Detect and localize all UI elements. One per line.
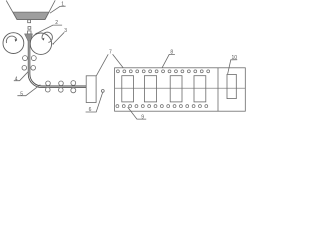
svg-text:3: 3 xyxy=(64,28,67,34)
label 2 leader xyxy=(36,25,62,33)
furnace partition xyxy=(217,68,219,111)
label 8 leader xyxy=(162,54,175,68)
label 4 leader xyxy=(14,71,29,80)
horizontal roller pair 1 bottom xyxy=(46,87,51,92)
svg-text:7: 7 xyxy=(109,49,112,55)
label 7 leader to box 6 xyxy=(96,54,108,75)
tundish 1 (molten metal pool, gray fill) xyxy=(13,12,49,20)
label 10 leader xyxy=(228,60,238,74)
label 7 leader to furnace roller xyxy=(113,54,126,71)
horizontal roller pair 2 bottom xyxy=(59,88,64,93)
molten wedge between rolls xyxy=(25,34,33,42)
label 9 leader xyxy=(128,107,147,119)
furnace shell 8 xyxy=(115,68,246,111)
guide roller pair B right xyxy=(31,66,36,71)
nozzle block S2 xyxy=(28,27,31,30)
heater box r1 xyxy=(122,76,134,102)
svg-text:4: 4 xyxy=(15,77,18,83)
tundish left wall xyxy=(6,1,17,20)
guide roller pair B left (4) xyxy=(22,66,27,71)
horizontal roller pair 3 bottom xyxy=(71,88,76,93)
coiler box r5 (10) xyxy=(227,74,236,98)
label 5 leader xyxy=(17,85,40,96)
horizontal roller pair 1 top xyxy=(46,81,51,86)
nozzle block S3 xyxy=(28,31,31,34)
heater box r3 xyxy=(170,76,182,102)
casting roll left xyxy=(3,33,24,54)
horizontal roller pair 2 top xyxy=(59,81,64,86)
nozzle block S1 xyxy=(28,20,31,23)
casting roll right (3) xyxy=(30,33,51,54)
pinch unit box 6 xyxy=(86,76,96,103)
guide roller pair A left xyxy=(23,56,28,61)
tundish right wall xyxy=(45,0,55,19)
right roll rotation arrow xyxy=(42,32,52,42)
guide roller pair A right xyxy=(31,56,36,61)
horizontal roller pair 3 top xyxy=(71,81,76,86)
svg-text:5: 5 xyxy=(20,92,23,98)
furnace bottom roller row xyxy=(116,105,208,108)
label 3 leader xyxy=(53,32,64,44)
furnace top roller row xyxy=(116,70,209,73)
label 1 leader xyxy=(50,6,66,13)
left roll rotation arrow xyxy=(6,36,16,43)
heater box r2 xyxy=(144,76,156,102)
small roll beside box 6 xyxy=(101,90,104,93)
svg-text:1: 1 xyxy=(61,2,64,8)
tundish bottom edge xyxy=(17,19,45,21)
label 6 leader xyxy=(86,93,103,112)
strip line through furnace xyxy=(115,87,246,89)
cast strip: vertical run, bend and horizontal run (5) xyxy=(29,40,86,87)
heater box r4 xyxy=(194,76,206,102)
